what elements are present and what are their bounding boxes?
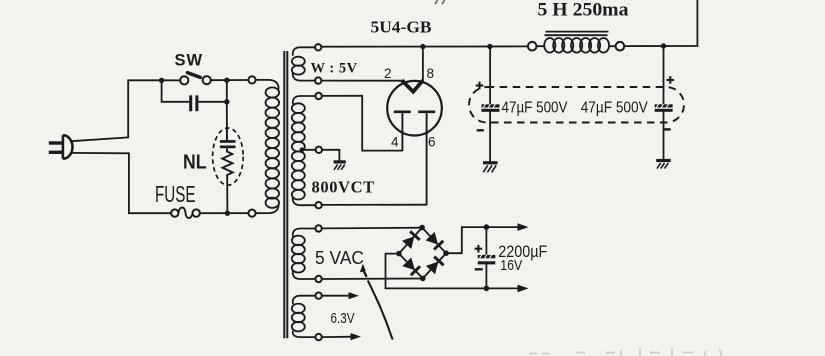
svg-text:5 VAC: 5 VAC [315, 248, 364, 268]
wire through NL [226, 128, 228, 141]
ground C1 [483, 163, 498, 173]
wire plug top lead [72, 137, 129, 141]
wire pin 6 to 800VCT bottom [322, 204, 427, 206]
svg-text:47µF 500V: 47µF 500V [581, 99, 648, 116]
annotation pointer line [365, 273, 393, 339]
svg-text:800VCT: 800VCT [312, 177, 375, 196]
winding W:5V [292, 44, 322, 84]
winding 5VAC [292, 225, 322, 282]
svg-text:4: 4 [391, 135, 399, 150]
label C3 minus [475, 268, 483, 270]
wire plug bottom lead [72, 152, 129, 154]
wire fuse to junction [200, 212, 249, 214]
neon lamp NL [213, 128, 244, 185]
wire pin 2 to W5V [321, 80, 404, 82]
node 2200uF top junction [484, 224, 490, 230]
svg-text:FUSE: FUSE [155, 181, 196, 207]
node capacitor branch junction [224, 99, 229, 104]
wire pin 8 riser [422, 47, 424, 82]
arrow minus out [518, 285, 529, 293]
winding 6.3V [292, 293, 322, 341]
wire middle riser [226, 80, 229, 213]
node bridge bottom [420, 276, 426, 282]
ground center tap [334, 162, 346, 170]
capacitor C3 2200uF 16V [478, 227, 496, 288]
label C3 plus [475, 245, 483, 253]
svg-text:16V: 16V [500, 257, 522, 274]
wire HT top rail [321, 45, 528, 47]
wire bridge minus out [386, 254, 522, 289]
wire center tap to ground [322, 150, 339, 161]
node bridge left [396, 251, 402, 257]
svg-text:6.3V: 6.3V [331, 311, 355, 327]
capacitor C1 47uF 500V [482, 47, 500, 162]
arrow plus out [518, 223, 529, 231]
wire switch to right junction [211, 79, 249, 81]
node center tap [300, 147, 305, 152]
capacitor line-filter [189, 95, 198, 111]
node bridge right [443, 250, 449, 256]
label C2 minus [663, 128, 670, 130]
wire left drop to fuse row [129, 153, 171, 213]
winding 800VCT [292, 93, 322, 209]
wire 5VAC top lead to bridge [322, 227, 422, 230]
diode D3 bottom-left [402, 258, 420, 276]
arrow 6.3V top [349, 292, 360, 299]
svg-text:6: 6 [428, 135, 436, 150]
wire pin 4 to 800VCT top [322, 96, 403, 151]
wire 6.3V top lead [322, 295, 351, 297]
svg-text:2: 2 [384, 66, 392, 81]
node bridge top [419, 225, 425, 231]
annotation arrowhead at 5 VAC [360, 264, 366, 273]
wire capacitor branch right [199, 101, 227, 103]
transformer core [284, 51, 287, 338]
diode D1 top-left [402, 231, 420, 249]
node C1 rail junction [487, 44, 492, 49]
wire capacitor branch left [162, 80, 189, 102]
scan speck marks top [435, 0, 445, 4]
node switch left junction [159, 78, 164, 83]
wire output riser to top edge [696, 0, 698, 46]
wire choke to output riser [624, 45, 697, 47]
terminal center tap [316, 147, 322, 153]
fuse F1 [171, 207, 200, 218]
arrow 6.3V bottom [351, 333, 362, 340]
node switch right junction [224, 78, 229, 83]
svg-text:5U4-GB: 5U4-GB [371, 17, 432, 36]
capacitor C2 47uF 500V [655, 46, 673, 159]
wire bridge plus out [446, 227, 521, 253]
dashed outline filter caps [469, 87, 684, 123]
wire center tap [302, 149, 316, 151]
wire 6.3V bottom lead [322, 336, 353, 338]
node fuse junction [225, 211, 230, 216]
AC plug P1 [49, 135, 73, 159]
rectifier tube 5U4-GB [387, 80, 442, 204]
svg-text:NL: NL [183, 152, 207, 174]
label C1 plus [476, 82, 484, 90]
wire 5VAC bottom lead to bridge [322, 278, 423, 281]
choke L1 core [545, 32, 609, 36]
ground C2 [656, 161, 671, 169]
choke L1 [528, 38, 624, 53]
svg-text:SW: SW [175, 52, 204, 70]
wire junction to switch [162, 79, 181, 81]
transformer T1 primary terminals [248, 76, 255, 83]
node C2 junction [661, 43, 666, 48]
wire left riser to switch row [128, 80, 161, 137]
switch SW [180, 73, 211, 85]
bridge rectifier frame [399, 228, 446, 279]
transformer T1 primary winding [256, 80, 280, 213]
label C1 minus [477, 129, 484, 131]
node pin8 rail junction [420, 44, 425, 49]
node 2200uF bottom junction [484, 286, 490, 292]
svg-text:W : 5V: W : 5V [311, 61, 358, 77]
diode D4 bottom-right [426, 257, 444, 275]
svg-text:8: 8 [427, 66, 435, 81]
label C2 plus [667, 76, 675, 84]
faint cropped caption at bottom edge [529, 349, 721, 356]
svg-text:47µF 500V: 47µF 500V [502, 99, 568, 116]
diode D2 top-right [426, 232, 444, 250]
svg-text:5 H 250ma: 5 H 250ma [538, 0, 629, 20]
